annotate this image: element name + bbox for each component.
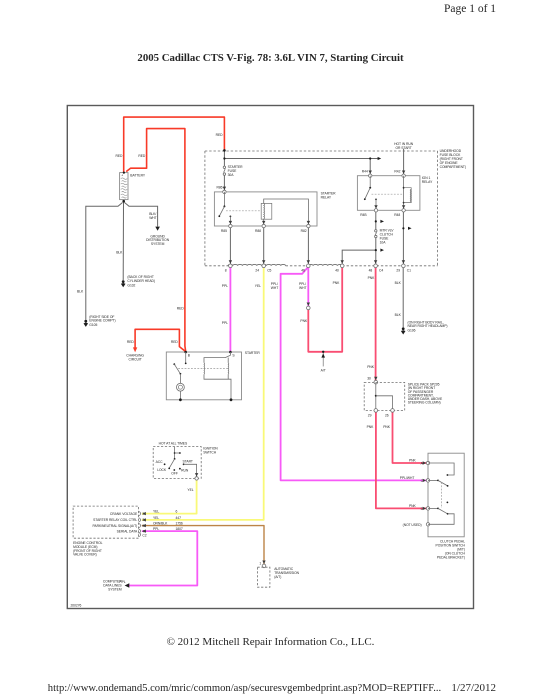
svg-text:CRANK VOLTAGE: CRANK VOLTAGE bbox=[110, 512, 138, 516]
svg-text:BATTERY: BATTERY bbox=[130, 173, 146, 177]
ground G106 bbox=[401, 320, 448, 334]
svg-text:CYLINDER HEAD): CYLINDER HEAD) bbox=[127, 279, 155, 283]
svg-text:G106: G106 bbox=[408, 328, 416, 332]
svg-text:G102: G102 bbox=[127, 283, 135, 287]
ECM dashed box bbox=[73, 506, 138, 538]
starter relay box bbox=[214, 192, 317, 226]
svg-text:WHT: WHT bbox=[149, 216, 156, 220]
svg-text:1756: 1756 bbox=[176, 522, 183, 526]
svg-text:PNK: PNK bbox=[333, 281, 341, 285]
svg-text:2005 Cadillac CTS V-Fig. 78: 3: 2005 Cadillac CTS V-Fig. 78: 3.6L VIN 7,… bbox=[137, 52, 404, 64]
connector row scallops bbox=[228, 264, 286, 265]
wire RED battery positive to fuse block (top loop) bbox=[124, 117, 225, 173]
svg-text:STARTER RELAY COIL CTRL: STARTER RELAY COIL CTRL bbox=[93, 518, 137, 522]
svg-text:Page 1 of 1: Page 1 of 1 bbox=[444, 3, 496, 15]
starter mech dashed link bbox=[178, 368, 228, 370]
svg-text:PNK: PNK bbox=[367, 425, 375, 429]
diagram border frame bbox=[67, 106, 473, 609]
svg-text:SYSTEM: SYSTEM bbox=[108, 588, 122, 592]
svg-text:200276: 200276 bbox=[71, 603, 82, 607]
svg-text:CIRCUIT: CIRCUIT bbox=[128, 357, 141, 361]
arrowhead into connector C2 bbox=[307, 303, 310, 306]
svg-text:48: 48 bbox=[369, 268, 373, 272]
svg-text:R86: R86 bbox=[217, 186, 223, 190]
svg-text:RED: RED bbox=[116, 154, 124, 158]
A/T connector pin 1 bbox=[262, 564, 266, 568]
node R44 feed junction + arrow bbox=[369, 157, 371, 159]
wire R4B through MTR VLV fuse to C4 bbox=[375, 210, 377, 229]
pin 46 bbox=[307, 264, 311, 268]
svg-text:SERIAL DATA: SERIAL DATA bbox=[117, 529, 138, 533]
ground G105 bbox=[84, 315, 116, 327]
svg-text:STARTER: STARTER bbox=[245, 351, 261, 355]
pin 40 bbox=[340, 264, 344, 268]
splice internal wires bbox=[375, 382, 377, 410]
svg-text:PNK: PNK bbox=[409, 458, 417, 462]
svg-text:R82: R82 bbox=[301, 229, 307, 233]
battery B1 bbox=[120, 173, 128, 200]
ground distribution arrow bbox=[146, 212, 170, 246]
wire YEL ignition switch to ECM row1 bbox=[142, 480, 197, 514]
wire PPL ECM row4 serial data to computer data lines bbox=[128, 531, 197, 585]
wire battery negative to ground distribution bbox=[125, 203, 158, 227]
svg-text:PPL/WHT: PPL/WHT bbox=[400, 476, 415, 480]
wire PNK connector C2 down to A/T loop bbox=[308, 266, 342, 352]
svg-text:RED: RED bbox=[216, 133, 224, 137]
pin D bbox=[426, 507, 429, 510]
svg-text:YEL: YEL bbox=[153, 516, 159, 520]
wire PPL/WHT pin 46 down to connector C2 bbox=[307, 266, 309, 306]
svg-text:46: 46 bbox=[301, 268, 305, 272]
wire battery negative to G105 (left) bbox=[86, 203, 123, 320]
starter box bbox=[166, 352, 241, 400]
svg-text:(A/T): (A/T) bbox=[274, 575, 281, 579]
node red feed junction bbox=[223, 149, 226, 152]
svg-text:R85: R85 bbox=[221, 229, 227, 233]
svg-text:C5: C5 bbox=[267, 268, 271, 272]
svg-text:WHT: WHT bbox=[271, 286, 278, 290]
pin 24/C5 bbox=[262, 264, 266, 268]
fuse F2 MTR VLV CLUTCH 10A bbox=[375, 230, 377, 232]
svg-text:VALVE COVER): VALVE COVER) bbox=[73, 553, 97, 557]
svg-text:BLK: BLK bbox=[395, 313, 402, 317]
node battery positive bbox=[123, 172, 125, 174]
ignition switch dashed box bbox=[153, 447, 201, 479]
svg-text:STEERING COLUMN): STEERING COLUMN) bbox=[408, 401, 441, 405]
arrowhead into A/T pin 1 bbox=[262, 561, 265, 564]
arrowheads into connector row pins bbox=[229, 260, 232, 263]
svg-text:BLK: BLK bbox=[116, 250, 123, 254]
wire R44 drop bbox=[369, 159, 371, 176]
svg-text:29: 29 bbox=[368, 414, 372, 418]
svg-text:10A: 10A bbox=[380, 240, 387, 244]
wire PNK splice 26 to clutch pin A bbox=[393, 411, 428, 463]
solenoid windings bbox=[204, 352, 230, 363]
wire fuse feed horizontal inside fuse block bbox=[224, 150, 370, 158]
svg-text:YEL: YEL bbox=[187, 488, 193, 492]
svg-text:RUN: RUN bbox=[181, 469, 189, 473]
svg-text:R48: R48 bbox=[394, 213, 400, 217]
node pin B bbox=[184, 351, 187, 354]
wire starter fuse vertical bbox=[223, 159, 225, 167]
svg-text:COMPARTMENT): COMPARTMENT) bbox=[440, 165, 466, 169]
svg-text:PNK: PNK bbox=[409, 504, 417, 508]
svg-text:PPL: PPL bbox=[222, 321, 228, 325]
A/T dashed box bbox=[258, 567, 270, 587]
fuse block dashed outline bbox=[205, 151, 438, 266]
fuse F1 STARTER FUSE 30A bbox=[223, 166, 225, 168]
node battery negative bbox=[122, 200, 125, 203]
wire PNK fuse C4 down to splice pack 30 bbox=[375, 266, 377, 382]
clutch switch box bbox=[428, 453, 464, 537]
starter contacts bbox=[185, 352, 187, 363]
pin C bbox=[426, 479, 429, 482]
svg-text:http://www.ondemand5.com/mric/: http://www.ondemand5.com/mric/common/asp… bbox=[48, 683, 441, 694]
svg-text:8: 8 bbox=[225, 268, 227, 272]
pins bottom bbox=[374, 209, 377, 212]
wire PPL fuse block pin 8 to starter S bbox=[229, 266, 231, 352]
svg-text:PPL: PPL bbox=[222, 284, 228, 288]
svg-text:C4: C4 bbox=[379, 268, 383, 272]
pin 48/C4 bbox=[374, 264, 378, 268]
pins top bbox=[369, 174, 372, 177]
start contact wire to pin bbox=[184, 464, 197, 478]
arrowheads into clutch switch pins bbox=[423, 461, 426, 464]
node R48 junction + arrow bbox=[402, 227, 404, 229]
svg-text:WHT: WHT bbox=[299, 286, 306, 290]
arrowheads into ECM pins bbox=[142, 512, 145, 515]
svg-text:S: S bbox=[232, 354, 235, 358]
node pin S bbox=[229, 351, 232, 354]
ign1 relay box bbox=[357, 176, 420, 211]
connector C2 bbox=[307, 306, 311, 310]
svg-text:G105: G105 bbox=[89, 323, 97, 327]
arrowhead into ignition switch pin bbox=[195, 473, 198, 476]
node A/T branch bbox=[322, 351, 324, 353]
arrow computer data lines bbox=[125, 583, 130, 588]
wire relay coil to connector pin C5 bbox=[263, 226, 265, 266]
relay mech dashed link bbox=[372, 193, 403, 195]
svg-text:A/T: A/T bbox=[321, 369, 326, 373]
svg-text:RELAY: RELAY bbox=[321, 195, 332, 199]
switch arm bbox=[174, 458, 176, 460]
svg-text:YEL: YEL bbox=[153, 510, 159, 514]
wire relay 87 to connector pin 46 bbox=[307, 226, 309, 266]
svg-text:1: 1 bbox=[259, 561, 261, 565]
svg-text:1807: 1807 bbox=[176, 527, 183, 531]
svg-text:RED: RED bbox=[127, 340, 135, 344]
svg-text:24: 24 bbox=[255, 268, 259, 272]
svg-text:PNK: PNK bbox=[367, 365, 375, 369]
svg-text:PPL: PPL bbox=[153, 527, 159, 531]
key feed bbox=[174, 447, 176, 459]
svg-text:RELAY: RELAY bbox=[422, 180, 433, 184]
relay switch bbox=[369, 176, 371, 188]
svg-text:(NOT USED): (NOT USED) bbox=[403, 523, 422, 527]
svg-text:ACC: ACC bbox=[156, 460, 164, 464]
relay mech dashed link bbox=[226, 210, 261, 212]
wire branch to pin 40 bbox=[342, 250, 376, 266]
svg-text:OR START: OR START bbox=[395, 146, 411, 150]
svg-text:29: 29 bbox=[396, 268, 400, 272]
position contacts bbox=[164, 463, 166, 465]
svg-text:6: 6 bbox=[176, 510, 178, 514]
node fuse bottom junction + arrow bbox=[375, 249, 377, 251]
wire YEL fuse block pin C5 to ECM row2 bbox=[142, 266, 264, 520]
node starter grounds bbox=[179, 398, 182, 401]
arrow charging circuit bbox=[133, 347, 137, 352]
svg-text:YEL: YEL bbox=[255, 284, 261, 288]
svg-text:OFF: OFF bbox=[171, 472, 178, 476]
wire relay R85 to connector pin 8 bbox=[229, 226, 231, 266]
wire BLK fuse block C1 to G106 bbox=[402, 266, 404, 327]
wire R48 to connector C1 bbox=[402, 210, 404, 265]
svg-text:R4B: R4B bbox=[360, 213, 367, 217]
internal contacts bbox=[428, 463, 454, 475]
wire PNK splice 29 to clutch pin D bbox=[376, 411, 428, 508]
svg-text:PNK: PNK bbox=[383, 425, 391, 429]
svg-text:30A: 30A bbox=[228, 173, 235, 177]
svg-text:C2: C2 bbox=[142, 534, 146, 538]
svg-text:30: 30 bbox=[367, 377, 371, 381]
svg-text:RED: RED bbox=[171, 340, 179, 344]
svg-text:ORN/BLK: ORN/BLK bbox=[153, 522, 168, 526]
svg-text:C1: C1 bbox=[407, 268, 411, 272]
pin E not used bbox=[426, 523, 429, 526]
svg-text:BLK: BLK bbox=[395, 281, 402, 285]
svg-text:R88: R88 bbox=[255, 229, 261, 233]
wire ORN/BLK ECM row3 to automatic transmission bbox=[142, 526, 264, 565]
svg-text:SYSTEM: SYSTEM bbox=[151, 242, 165, 246]
wire RED charging circuit branch bbox=[135, 329, 186, 351]
svg-text:PNK: PNK bbox=[368, 276, 376, 280]
ECM pins bbox=[139, 512, 141, 537]
wire battery negative to G102 (middle) bbox=[122, 203, 124, 281]
arrowhead into splice pin 30 bbox=[374, 377, 377, 380]
ground G102 bbox=[121, 275, 155, 287]
pin R86 bbox=[223, 190, 226, 193]
svg-text:PARK/NEUTRAL SIGNAL(A/T): PARK/NEUTRAL SIGNAL(A/T) bbox=[92, 524, 137, 528]
svg-text:ENGINE COMPT): ENGINE COMPT) bbox=[89, 319, 115, 323]
svg-text:R42: R42 bbox=[394, 169, 400, 173]
svg-text:SWITCH: SWITCH bbox=[203, 450, 217, 454]
motor M bbox=[179, 374, 181, 384]
wire hot in run feed to IGN1 relay R42 bbox=[403, 149, 405, 176]
node fuse feed junction bbox=[223, 157, 225, 159]
svg-text:RED: RED bbox=[177, 306, 185, 310]
svg-text:HOT AT ALL TIMES: HOT AT ALL TIMES bbox=[159, 442, 188, 446]
wire PPL/WHT fuse block pin 46 to clutch switch pin C bbox=[281, 267, 428, 481]
svg-text:BLK: BLK bbox=[77, 290, 84, 294]
pin A bbox=[426, 461, 429, 464]
svg-text:+: + bbox=[121, 174, 123, 178]
pin 29/C1 bbox=[402, 264, 406, 268]
wire RED battery positive to starter B (second loop) bbox=[126, 129, 186, 352]
pins bottom bbox=[229, 224, 232, 227]
pin 8 bbox=[229, 264, 233, 268]
node R4B junction + arrow bbox=[375, 220, 377, 222]
svg-text:PEDAL BRACKET): PEDAL BRACKET) bbox=[437, 555, 465, 559]
svg-text:447: 447 bbox=[176, 516, 182, 520]
relay switch bbox=[223, 192, 225, 207]
svg-text:R44: R44 bbox=[362, 169, 368, 173]
svg-text:LOCK: LOCK bbox=[157, 468, 167, 472]
svg-text:40: 40 bbox=[335, 268, 339, 272]
svg-text:PNK: PNK bbox=[300, 319, 308, 323]
svg-text:26: 26 bbox=[385, 414, 389, 418]
splice pack dashed box bbox=[364, 382, 405, 410]
arrowheads into relay pins bbox=[223, 187, 226, 190]
relay coil K1 bbox=[264, 199, 309, 226]
svg-text:© 2012 Mitchell Repair Informa: © 2012 Mitchell Repair Information Co., … bbox=[167, 636, 375, 648]
svg-text:1/27/2012: 1/27/2012 bbox=[451, 682, 496, 694]
relay coil bbox=[403, 176, 405, 211]
svg-text:B: B bbox=[188, 354, 191, 358]
svg-text:START: START bbox=[183, 460, 193, 464]
svg-text:RED: RED bbox=[138, 154, 146, 158]
